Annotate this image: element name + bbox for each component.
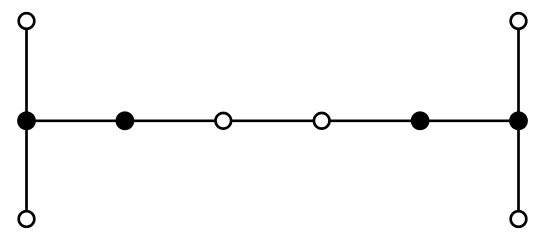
node v7bot (open, bottom-right) bbox=[511, 211, 527, 227]
node v0top (open, top-left) bbox=[19, 13, 35, 29]
wire: horizontal path edge v1-v6 bbox=[27, 119, 519, 122]
wire: right vertical edge v7top-v6-v7bot bbox=[517, 21, 520, 219]
node v5 (filled) bbox=[411, 111, 430, 130]
wire: left vertical edge v0top-v1-v0bot bbox=[25, 21, 28, 219]
node v6 (filled) bbox=[509, 111, 528, 130]
node v7top (open, top-right) bbox=[511, 13, 527, 29]
node v2 (filled) bbox=[116, 111, 135, 130]
node v4 (open) bbox=[314, 113, 330, 129]
node v1 (filled) bbox=[17, 111, 36, 130]
node v3 (open) bbox=[216, 113, 232, 129]
node v0bot (open, bottom-left) bbox=[19, 211, 35, 227]
